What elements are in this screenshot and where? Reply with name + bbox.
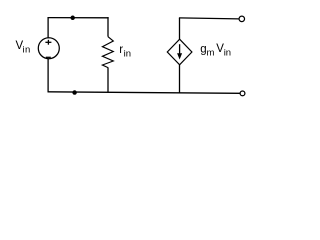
output terminal bottom bbox=[240, 91, 245, 96]
wire resistor branch top bbox=[107, 17, 109, 37]
resistor r_in zigzag bbox=[102, 37, 113, 68]
svg-text:in: in bbox=[124, 49, 131, 60]
svg-text:r: r bbox=[119, 44, 123, 56]
wire resistor branch bottom bbox=[107, 67, 109, 92]
wire left vertical bottom (source to bottom rail) bbox=[47, 58, 49, 92]
junction dot top rail bbox=[70, 16, 75, 21]
arrowhead of current source bbox=[177, 53, 182, 59]
output terminal top bbox=[239, 16, 245, 22]
arrow shaft inside diamond bbox=[179, 44, 181, 55]
voltage source Vin circle bbox=[38, 38, 59, 59]
wire top rail left loop bbox=[48, 17, 109, 19]
wire diamond branch bottom bbox=[179, 65, 181, 93]
minus sign inside source bbox=[46, 56, 51, 58]
svg-text:in: in bbox=[22, 45, 30, 56]
wire left vertical top (source to top rail) bbox=[47, 17, 49, 38]
plus sign inside source bbox=[45, 41, 51, 43]
dependent current source gmVin diamond bbox=[167, 39, 192, 65]
wire top rail right (diamond to output) bbox=[179, 18, 239, 19]
wire bottom rail bbox=[48, 92, 241, 94]
svg-text:in: in bbox=[224, 48, 231, 59]
wire diamond branch top bbox=[179, 18, 181, 39]
junction dot bottom rail bbox=[72, 90, 77, 95]
svg-text:m: m bbox=[207, 48, 215, 59]
